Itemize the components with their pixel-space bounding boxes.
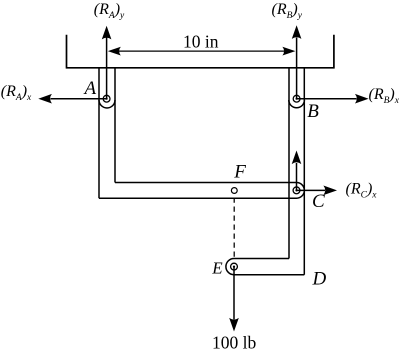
svg-text:C: C (312, 191, 325, 212)
svg-text:(RA)x: (RA)x (1, 83, 32, 103)
wire right vertical member outer line (303, 68, 305, 275)
wire middle member bottom line (99, 197, 297, 199)
wire left vertical member inner line (114, 68, 116, 183)
clevis arc at A (99, 100, 115, 108)
force arrow 100 lb down at E (229, 267, 239, 332)
pin circle F (231, 188, 237, 194)
force arrow (RB)y (292, 25, 302, 98)
svg-text:B: B (307, 101, 319, 122)
svg-text:(RB)x: (RB)x (369, 86, 400, 106)
pin dot B (296, 98, 298, 100)
pin dot A (106, 98, 108, 100)
pin circle C (293, 187, 300, 194)
svg-text:(RC)x: (RC)x (346, 180, 378, 200)
pin dot C (295, 189, 297, 191)
ceiling support (66, 35, 335, 68)
force arrow (RB)x (297, 94, 369, 104)
svg-text:D: D (312, 269, 327, 290)
clevis arc at B (289, 100, 305, 108)
svg-text:A: A (83, 78, 97, 99)
clevis arc at C (297, 183, 305, 199)
wire bottom member top line (234, 258, 289, 260)
wire bottom member bottom line (234, 274, 304, 276)
svg-text:(RB)y: (RB)y (272, 1, 303, 21)
svg-text:E: E (211, 258, 223, 277)
wire right vertical member inner line (288, 68, 290, 259)
svg-text:(RA)y: (RA)y (94, 1, 125, 21)
svg-text:100 lb: 100 lb (212, 333, 256, 353)
wire left vertical member outer line (98, 68, 100, 198)
pin circle A (103, 95, 110, 102)
pin circle E (231, 263, 238, 270)
pin circle B (293, 95, 300, 102)
clevis arc at E (226, 259, 234, 275)
force arrow (RA)y (102, 26, 112, 99)
svg-text:F: F (233, 161, 246, 182)
force arrow up at C (292, 151, 302, 191)
svg-text:10 in: 10 in (183, 32, 219, 52)
dimension line 10 in (108, 47, 296, 56)
force arrow (RA)x (38, 94, 106, 104)
dashed line F to E (233, 198, 235, 259)
pin dot E (233, 266, 235, 268)
wire middle member top line (115, 182, 297, 184)
force arrow (RC)x (297, 186, 338, 196)
